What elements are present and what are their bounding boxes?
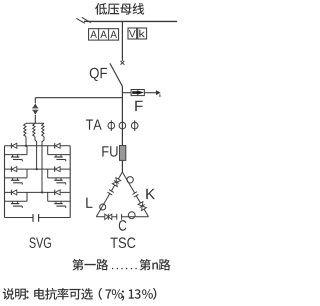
note 说明：电抗率可选（7%；13%）: [3, 288, 157, 301]
wire: right cell loop row 3: [48, 192, 70, 201]
label FU: [102, 146, 117, 156]
wire: left cell loop row 1: [5, 146, 28, 155]
node: phase B junction: [36, 168, 38, 170]
IGBT Q1: [11, 155, 22, 162]
busbar break hatch: [76, 17, 91, 23]
thyristor pair K bottom branch: [105, 214, 112, 220]
thyristor pair K left branch: [112, 178, 120, 187]
wire: SVG DC+ rail: [4, 146, 6, 218]
capacitor C right branch: [132, 192, 138, 197]
reactor coil phase C: [42, 123, 44, 136]
busbar 低压母线: [84, 20, 177, 22]
wire: right cell loop row 1: [48, 146, 70, 155]
diode D5: [11, 190, 16, 195]
label TA: [86, 120, 102, 130]
label 第一路: [72, 259, 108, 271]
wire: main feeder drop from busbar: [121, 21, 123, 61]
IGBT Q4: [54, 178, 65, 185]
label C: [119, 220, 127, 231]
diode D2: [55, 143, 60, 148]
breaker QF contact x-mark: [121, 61, 125, 65]
wire: TSC delta left side: [96, 172, 122, 217]
diode D4: [55, 166, 60, 171]
label TSC: [111, 237, 136, 248]
diode D3: [11, 166, 16, 171]
capacitor C left branch: [108, 190, 114, 195]
label V meter: [129, 30, 136, 37]
label F: [135, 101, 142, 111]
label A phase meters: [90, 31, 117, 38]
label K: [146, 189, 155, 199]
fuse FU body: [120, 146, 126, 161]
IGBT Q6: [54, 201, 65, 208]
wire: phase V row: [5, 168, 71, 170]
CT TA middle phase: [119, 122, 126, 129]
diode D1: [11, 143, 16, 148]
wire: branch to SVG: [35, 97, 122, 99]
wire: main vertical below breaker: [121, 86, 123, 172]
reactor top bar: [26, 122, 44, 124]
ellipsis dots: [112, 268, 137, 270]
voltmeter box V: [128, 28, 137, 39]
IGBT Q2: [54, 155, 65, 162]
wire: SVG bottom rail: [5, 217, 71, 219]
thyristor pair K right branch: [138, 202, 146, 211]
wire: SVG DC- rail: [69, 146, 71, 218]
node: phase C junction: [41, 192, 43, 194]
label QF: [90, 68, 107, 81]
reactor L bottom branch: [128, 212, 135, 219]
arrester F body: [131, 90, 144, 96]
label 低压母线: [95, 3, 144, 15]
wire: SVG drop: [34, 98, 36, 104]
capacitor C bottom plates: [117, 214, 122, 220]
wire: TSC delta bottom side: [96, 216, 148, 218]
wire: phase C riser: [42, 137, 44, 193]
label 第n路: [140, 259, 171, 271]
label SVG: [29, 237, 51, 248]
ammeter boxes AAA: [89, 29, 119, 40]
breaker QF blade: [110, 63, 123, 86]
reactor coil phase B: [33, 123, 35, 136]
CT TA left phase: [108, 120, 115, 131]
wire: phase U row: [5, 145, 71, 147]
meter box k: [138, 28, 147, 39]
node: phase A junction: [25, 145, 27, 147]
wire: left cell loop row 2: [5, 169, 28, 178]
wire: phase B riser: [35, 137, 37, 169]
arrester discharge arrow tip: [156, 90, 161, 97]
label L: [86, 198, 92, 208]
wire: branch to arrester F: [122, 92, 156, 94]
label k meter: [139, 30, 145, 38]
wire: right cell loop row 2: [48, 169, 70, 178]
CT TA right phase: [131, 120, 138, 131]
wire: phase W row: [5, 191, 71, 193]
wire: TSC delta right side: [122, 172, 148, 217]
reactor L right branch: [127, 177, 133, 183]
reactor L left branch: [100, 204, 106, 210]
IGBT Q3: [11, 178, 22, 185]
IGBT Q5: [11, 201, 22, 208]
wire: left cell loop row 3: [5, 192, 28, 201]
reactor coil phase A: [24, 123, 26, 136]
diode D6: [55, 190, 60, 195]
capacitor: DC link: [33, 214, 39, 222]
wire: phase A riser: [25, 137, 27, 146]
connector plug symbol: [32, 104, 38, 124]
